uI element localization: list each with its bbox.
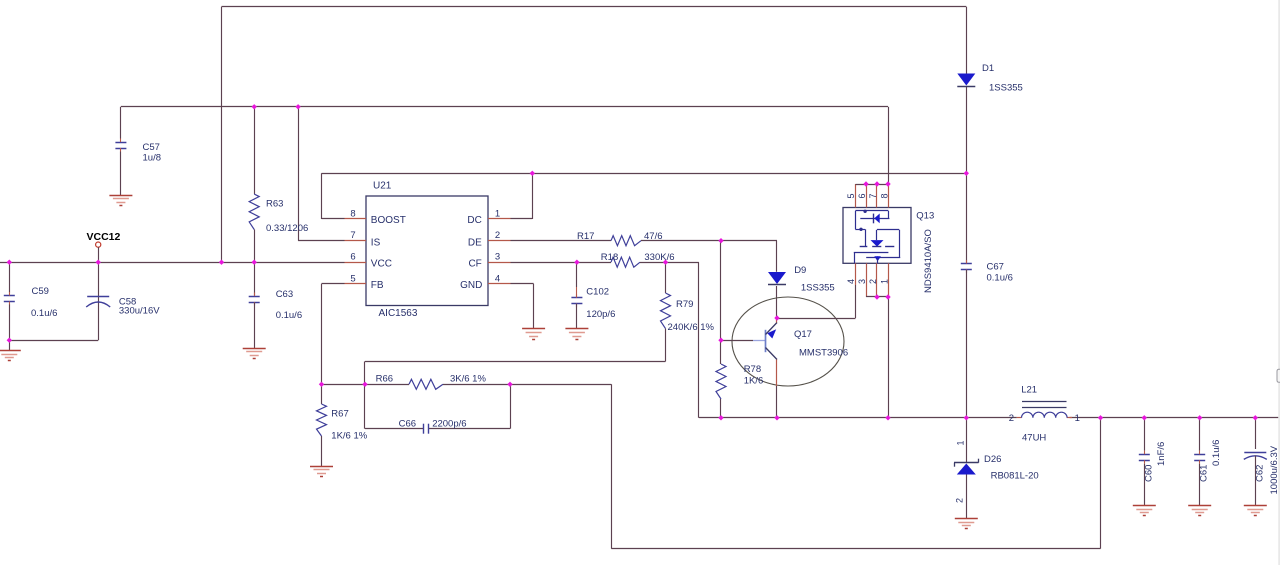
label C59	[31, 286, 57, 319]
svg-text:120p/6: 120p/6	[586, 309, 615, 320]
capacitor C57	[115, 107, 126, 195]
svg-text:IS: IS	[371, 237, 381, 248]
ground C58 C59	[0, 340, 21, 360]
svg-text:47UH: 47UH	[1022, 433, 1046, 444]
svg-text:C66: C66	[399, 419, 416, 430]
svg-text:7: 7	[868, 193, 878, 198]
ground R67	[310, 467, 333, 477]
svg-text:L21: L21	[1021, 385, 1037, 396]
label R79	[668, 299, 715, 333]
svg-text:AIC1563: AIC1563	[379, 308, 418, 319]
svg-text:0.33/1206: 0.33/1206	[266, 223, 308, 234]
svg-text:FB: FB	[371, 280, 384, 291]
label D1	[982, 63, 1023, 94]
wire R79 to FB node	[365, 361, 666, 384]
node VCC12	[87, 231, 121, 262]
svg-text:R67: R67	[331, 408, 348, 419]
svg-text:6: 6	[350, 252, 355, 263]
label Q17	[794, 329, 848, 359]
svg-text:330K/6: 330K/6	[644, 252, 674, 263]
svg-text:C62: C62	[1254, 465, 1265, 482]
inductor L21	[1017, 402, 1072, 418]
svg-text:2: 2	[955, 498, 965, 503]
svg-text:Q13: Q13	[916, 211, 934, 222]
label R17	[577, 231, 663, 242]
wire BOOST loop	[322, 173, 345, 219]
resistor R66	[365, 379, 510, 389]
svg-text:4: 4	[846, 279, 856, 284]
svg-text:R66: R66	[376, 373, 393, 384]
wire FB vertical	[322, 284, 345, 385]
diode D1	[957, 74, 975, 87]
capacitor C59	[4, 262, 15, 340]
wire GND pin to ground	[511, 284, 534, 330]
label C61	[1199, 440, 1223, 482]
svg-text:330u/16V: 330u/16V	[119, 306, 160, 317]
resistor R67	[317, 384, 327, 466]
svg-text:1: 1	[1075, 413, 1080, 424]
op-amp U21 AIC1563 box	[366, 196, 488, 306]
capacitor C67	[961, 173, 972, 417]
wire feedback bottom	[611, 384, 1100, 548]
svg-text:3: 3	[495, 252, 500, 263]
label R18	[601, 252, 675, 263]
resistor R17	[511, 236, 778, 246]
svg-text:2: 2	[1009, 413, 1014, 424]
pin 8 BOOST	[345, 209, 406, 227]
ground C63	[243, 349, 266, 359]
svg-text:CF: CF	[468, 259, 481, 270]
ground U21	[522, 329, 545, 340]
wire FB to R66	[322, 384, 366, 386]
wire D1 to C67	[966, 87, 968, 173]
wire Q13 source riser	[888, 297, 890, 418]
svg-text:1u/8: 1u/8	[143, 153, 162, 164]
svg-text:C60: C60	[1143, 465, 1154, 482]
label R63	[266, 199, 308, 235]
resistor R78	[716, 340, 726, 418]
pin 6 VCC	[345, 252, 392, 270]
svg-text:NDS9410A/SO: NDS9410A/SO	[923, 229, 934, 293]
D26 pin numbers	[955, 440, 966, 503]
svg-text:VCC: VCC	[371, 259, 392, 270]
svg-text:8: 8	[350, 209, 355, 220]
pin 7 IS	[345, 230, 381, 248]
label C62	[1254, 445, 1280, 494]
svg-text:4: 4	[495, 273, 500, 284]
capacitor C58	[9, 262, 110, 340]
svg-text:5: 5	[350, 273, 355, 284]
label R66	[376, 373, 487, 384]
svg-text:0.1u/6: 0.1u/6	[1211, 440, 1222, 466]
capacitor C62	[1244, 418, 1267, 506]
svg-text:3K/6 1%: 3K/6 1%	[450, 373, 486, 384]
label R67	[331, 408, 367, 441]
svg-text:47/6: 47/6	[644, 231, 663, 242]
label C66	[399, 419, 467, 430]
transistor Q13 body	[843, 184, 911, 297]
svg-text:0.1u/6: 0.1u/6	[276, 310, 302, 321]
svg-text:R63: R63	[266, 199, 283, 210]
label L21	[1021, 385, 1046, 444]
capacitor C63	[249, 262, 260, 348]
svg-text:DC: DC	[467, 215, 481, 226]
svg-text:1K/6: 1K/6	[744, 376, 764, 387]
label C58	[119, 297, 160, 317]
wire R66 out	[510, 384, 611, 386]
ground C57	[109, 196, 132, 206]
ground D26	[955, 519, 978, 529]
label D9	[794, 265, 835, 294]
resistor R18	[511, 257, 699, 267]
svg-text:BOOST: BOOST	[371, 215, 406, 226]
wire base branch	[720, 241, 722, 341]
svg-text:C63: C63	[276, 289, 293, 300]
svg-text:6: 6	[857, 193, 867, 198]
scrollbar artifact	[1277, 0, 1280, 565]
svg-text:C102: C102	[586, 287, 609, 298]
svg-text:R78: R78	[744, 364, 761, 375]
wire DC riser	[511, 173, 533, 219]
label C57	[143, 142, 162, 164]
svg-text:U21: U21	[373, 181, 392, 192]
pin 5 FB	[345, 273, 384, 291]
svg-text:RB081L-20: RB081L-20	[991, 471, 1039, 482]
label NDS9410A/SO	[923, 229, 934, 293]
L21 pin numbers	[1009, 413, 1080, 424]
label C67	[987, 262, 1013, 284]
diode D9	[768, 241, 786, 318]
svg-text:VCC12: VCC12	[87, 231, 121, 243]
svg-text:5: 5	[846, 193, 856, 198]
svg-text:D26: D26	[984, 454, 1001, 465]
wire Q13 drain riser	[888, 107, 890, 184]
svg-text:1nF/6: 1nF/6	[1156, 442, 1167, 466]
svg-text:0.1u/6: 0.1u/6	[987, 273, 1013, 284]
svg-text:C67: C67	[987, 262, 1004, 273]
ground C62	[1244, 506, 1267, 516]
resistor R79	[661, 262, 671, 361]
transistor Q17	[721, 297, 844, 418]
wire switching rail	[699, 262, 1280, 418]
capacitor C66 loop	[365, 384, 511, 433]
svg-text:C61: C61	[1199, 465, 1210, 482]
svg-text:C59: C59	[32, 286, 49, 297]
svg-text:8: 8	[880, 193, 890, 198]
wire BOOST rail	[322, 173, 967, 175]
svg-text:D9: D9	[794, 265, 806, 276]
wire top rail from VCC12 bus to D1	[222, 7, 967, 263]
svg-text:D1: D1	[982, 63, 994, 74]
wire Q13 gate	[777, 263, 856, 318]
svg-text:R79: R79	[676, 299, 693, 310]
svg-text:7: 7	[350, 230, 355, 241]
svg-text:Q17: Q17	[794, 329, 812, 340]
wire VCC12 bus	[0, 262, 345, 264]
resistor R63	[249, 107, 259, 262]
label R78	[744, 364, 764, 387]
Q13 pin numbers	[846, 193, 890, 284]
svg-text:R17: R17	[577, 231, 594, 242]
svg-text:3: 3	[857, 279, 867, 284]
label C102	[586, 287, 615, 321]
transistor Q13 mosfet symbol	[854, 210, 900, 264]
wire IS riser	[298, 107, 344, 241]
capacitor C61	[1194, 418, 1205, 506]
svg-text:2200p/6: 2200p/6	[432, 419, 466, 430]
ground C61	[1188, 506, 1211, 516]
wire VCC rail 2 (C57 to Q13 drain)	[121, 106, 888, 108]
svg-text:0.1u/6: 0.1u/6	[31, 308, 57, 319]
label Q13	[916, 211, 934, 222]
pin 3 CF	[468, 252, 510, 270]
svg-text:GND: GND	[460, 280, 482, 291]
svg-text:1: 1	[956, 440, 966, 445]
ground C60	[1133, 506, 1156, 516]
label C60	[1143, 442, 1167, 482]
svg-text:1SS355: 1SS355	[989, 83, 1023, 94]
diode D26	[954, 418, 979, 519]
pin 2 DE	[468, 230, 511, 248]
ground C102	[565, 329, 588, 340]
svg-text:1: 1	[495, 209, 500, 220]
capacitor C102	[571, 262, 582, 329]
svg-text:1: 1	[880, 279, 890, 284]
pin 4 GND	[460, 273, 510, 291]
svg-text:R18: R18	[601, 252, 618, 263]
svg-text:2: 2	[495, 230, 500, 241]
svg-text:1K/6 1%: 1K/6 1%	[331, 431, 367, 442]
capacitor C60	[1139, 418, 1150, 506]
svg-text:2: 2	[868, 279, 878, 284]
svg-text:DE: DE	[468, 237, 482, 248]
svg-text:MMST3906: MMST3906	[799, 348, 848, 359]
svg-text:240K/6 1%: 240K/6 1%	[668, 322, 715, 333]
label D26	[984, 454, 1039, 482]
svg-text:1SS355: 1SS355	[801, 283, 835, 294]
label C63	[276, 289, 302, 321]
label AIC1563	[379, 308, 418, 319]
pin 1 DC	[467, 209, 510, 227]
svg-text:C57: C57	[143, 142, 160, 153]
label U21	[373, 181, 392, 192]
